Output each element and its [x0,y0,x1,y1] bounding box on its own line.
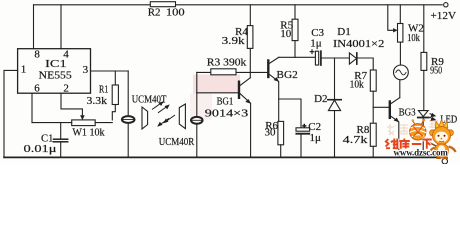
svg-text:BG2: BG2 [276,69,297,81]
wire R3 left down [196,72,198,92]
svg-text:R1: R1 [99,84,108,96]
diode D1 [349,53,356,64]
wire emitter node to C2 [279,99,301,128]
wire node R4-R3-BG2 [249,48,251,77]
wire +12V top rail [34,4,443,6]
svg-text:1μ: 1μ [310,132,322,144]
label C3 plus [310,49,315,54]
transducer UCM40T [127,71,129,116]
watermark mascot [424,120,456,158]
svg-text:IN4001×2: IN4001×2 [333,38,384,50]
wire pin 8 [33,5,35,49]
transistor BG2 emitter arrowhead [274,77,280,82]
svg-text:NE555: NE555 [39,69,73,81]
diode D2 [334,58,336,100]
svg-text:R2: R2 [148,6,161,18]
svg-text:1: 1 [21,64,27,76]
resistor R2 [150,2,175,7]
svg-text:4.7k: 4.7k [343,134,368,146]
svg-text:www.dzsc.com: www.dzsc.com [394,148,449,158]
wire pin 2 to W1 wiper [61,93,82,117]
label C2 plus [302,124,306,128]
svg-text:UCM40T: UCM40T [132,93,167,105]
svg-text:BG3: BG3 [399,107,416,119]
svg-text:8: 8 [34,49,40,61]
transistor BG1 [238,82,240,98]
svg-text:10k: 10k [407,32,420,44]
svg-text:D2: D2 [314,93,327,105]
watermark faint text [387,121,438,135]
transistor BG2 [267,61,269,78]
svg-text:2: 2 [63,83,69,95]
wire pin 4 [60,5,62,49]
svg-text:3.9k: 3.9k [222,35,246,47]
node +12V terminal [444,3,448,7]
svg-text:30: 30 [265,126,277,138]
resistor R4 [249,5,251,26]
capacitor C2 [296,128,310,131]
watermark mascot ball [410,119,427,140]
potentiometer W2 [399,5,401,24]
transistor BG3 [389,102,391,118]
wire BG2 collector node [279,56,316,58]
diode LED [418,111,428,117]
svg-text:3.3k: 3.3k [87,95,108,107]
watermark red text (vector CJK glyphs) [386,139,432,149]
watermark pink stamp [190,75,240,120]
plus marks [302,49,314,128]
IC U1 NE555 box [18,49,91,93]
resistor R9 [423,5,425,53]
svg-text:BG1: BG1 [217,95,234,107]
wire pin 3 output [91,70,129,72]
svg-text:IC1: IC1 [45,58,66,70]
svg-text:R3 390k: R3 390k [207,57,247,69]
svg-text:9014×3: 9014×3 [205,107,249,119]
potentiometer W2 wiper arrowhead [393,28,398,32]
potentiometer W1 [72,120,96,126]
svg-text:0.01μ: 0.01μ [24,143,57,155]
svg-text:+12V: +12V [431,10,457,22]
potentiometer W1 wiper arrowhead [80,115,85,120]
svg-text:10: 10 [280,28,292,40]
resistor R6 [278,121,284,144]
transistor BG3 emitter arrowhead [394,118,400,123]
svg-text:6: 6 [34,82,40,94]
wire pin 1 to left rail [4,70,18,157]
wire pin 6 [31,93,33,122]
arrowheads [80,28,399,122]
svg-text:1μ: 1μ [310,37,322,49]
transducer UCM40R [179,104,185,129]
resistor R1 [114,71,116,85]
svg-text:D1: D1 [337,26,350,38]
capacitor C3 [315,51,318,65]
capacitor C1 [60,123,62,139]
wire ground bottom rail [4,156,442,158]
svg-text:3: 3 [83,64,89,76]
wire BG3 base [373,106,389,108]
svg-text:W1 10k: W1 10k [72,127,105,139]
ultrasonic wave arrows [152,102,175,126]
svg-text:950: 950 [430,64,442,76]
signal source [394,65,409,80]
resistor R7 [370,70,376,91]
resistor R5 [294,5,296,19]
resistor R3 [197,71,268,73]
transistor BG1 emitter arrowhead [245,99,251,104]
LED light arrows [430,114,436,121]
svg-text:UCM40R: UCM40R [159,136,195,148]
resistor R8 [370,123,376,146]
wire BG1 base [197,92,238,94]
node negative terminal [442,159,447,164]
svg-text:10k: 10k [350,78,365,90]
svg-text:100: 100 [166,6,185,18]
